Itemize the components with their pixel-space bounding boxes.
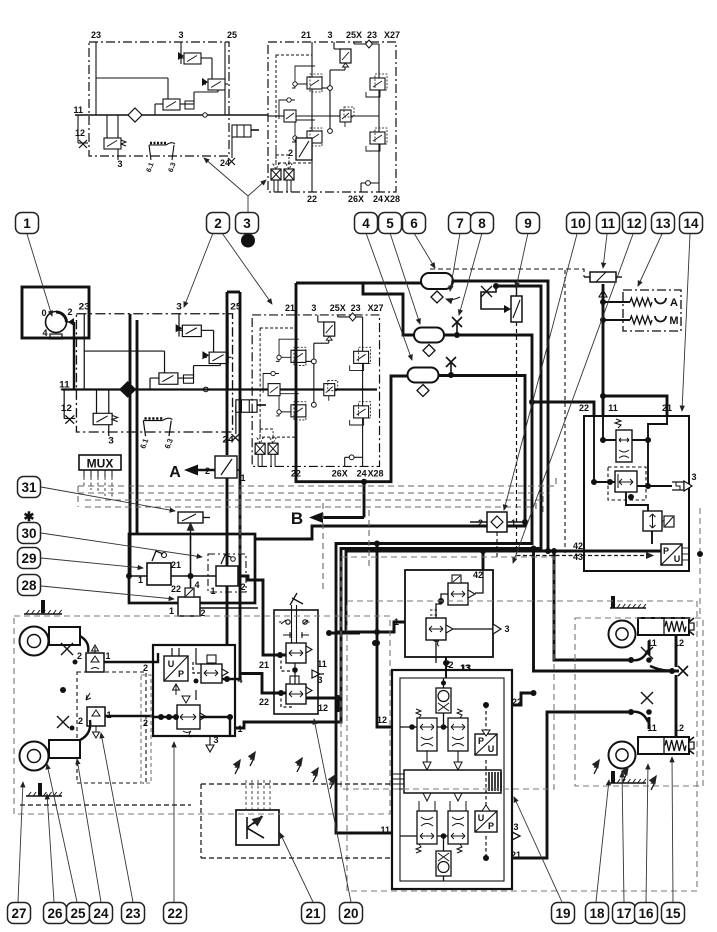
dashed pilot vertical [485, 705, 487, 858]
switch box [274, 610, 318, 714]
callout 11 [597, 213, 620, 234]
P/U converter of block 14 [661, 544, 682, 565]
svg-text:4: 4 [362, 216, 370, 231]
callout 14 [680, 213, 703, 234]
feed from bus to port 1 [336, 622, 405, 632]
callout 23 [122, 903, 145, 924]
MUX dashed harness down to K [84, 477, 112, 499]
svg-text:1: 1 [210, 586, 215, 596]
callout 8 [471, 213, 494, 234]
svg-text:P: P [178, 669, 184, 679]
callout 5 [379, 213, 402, 234]
svg-text:4: 4 [194, 580, 199, 590]
accumulator 6 [421, 273, 453, 303]
svg-text:3: 3 [691, 472, 696, 482]
svg-text:23: 23 [125, 906, 141, 921]
svg-text:1: 1 [511, 518, 516, 528]
svg-text:19: 19 [555, 906, 570, 921]
callout 21 [302, 903, 325, 924]
lower valve + pilot [643, 511, 674, 531]
svg-text:11: 11 [317, 659, 327, 669]
svg-text:28: 28 [21, 578, 37, 593]
item 28 solenoid valve [169, 580, 206, 618]
svg-text:U: U [168, 659, 175, 669]
svg-text:3: 3 [513, 822, 518, 832]
output arrow 11/3 [312, 670, 324, 678]
svg-text:29: 29 [21, 551, 36, 566]
bleed valve 8 [452, 317, 462, 334]
callout 1 [16, 213, 39, 234]
svg-text:42: 42 [473, 570, 483, 580]
svg-text:1: 1 [240, 473, 245, 483]
lower solenoid valves [416, 793, 437, 853]
svg-text:2: 2 [78, 716, 83, 726]
pump P [46, 312, 75, 340]
svg-text:9: 9 [524, 216, 532, 231]
callout 22 [164, 903, 187, 924]
item 30 valve in dashdot [208, 554, 246, 592]
EBS port lines [512, 693, 631, 858]
gray loom rectangles [14, 557, 703, 891]
internal wiring [436, 570, 493, 663]
check symbol + item 9 column [493, 283, 499, 289]
middle main line overlay [62, 388, 377, 390]
svg-text:2: 2 [214, 216, 222, 231]
block 20 thick frame [238, 576, 360, 712]
ports & junctions [158, 714, 164, 720]
callout 17 [613, 903, 636, 924]
item 29 hand brake valve [138, 551, 181, 594]
svg-text:42: 42 [573, 541, 583, 551]
callout 27 [8, 903, 31, 924]
42 top feed junction [480, 548, 486, 554]
svg-text:MUX: MUX [87, 457, 114, 471]
thick pneumatic bus right side [235, 281, 679, 833]
accumulator 5 [414, 328, 444, 357]
svg-text:2: 2 [67, 307, 72, 317]
callout 4 [355, 213, 378, 234]
svg-text:31: 31 [21, 480, 37, 495]
right pilot valve [201, 655, 228, 683]
callout 10 [567, 213, 590, 234]
upper solenoid valves [416, 709, 437, 751]
callout 7 [449, 213, 472, 234]
dashed interconnect box [77, 672, 146, 783]
accumulator 4 [408, 368, 439, 397]
svg-text:21: 21 [301, 30, 311, 40]
callout 19 [552, 903, 575, 924]
svg-text:30: 30 [21, 526, 36, 541]
svg-text:26X: 26X [348, 194, 364, 204]
front axle: top hatch rail [24, 610, 62, 614]
callout 2 [207, 213, 230, 234]
item 13 A/M heater coils box [603, 290, 681, 331]
svg-text:22: 22 [167, 906, 182, 921]
callout 15 [662, 903, 685, 924]
callout 6 [403, 213, 426, 234]
svg-text:11: 11 [601, 216, 616, 231]
svg-text:43: 43 [573, 552, 583, 562]
svg-text:0: 0 [41, 308, 46, 318]
svg-text:A: A [169, 464, 181, 481]
item 11 line relay [584, 272, 622, 282]
curved arrow (item 7 target) [446, 297, 460, 300]
svg-text:24: 24 [373, 194, 383, 204]
front chamber 2 [20, 742, 49, 771]
svg-text:1: 1 [105, 651, 110, 661]
hand lever [290, 593, 303, 605]
EBS block 19 outer [392, 670, 512, 889]
callout 16 [635, 903, 658, 924]
item10 lines [470, 521, 525, 523]
valve 2 of block 20 [286, 676, 312, 704]
internal wires [172, 648, 201, 700]
svg-text:20: 20 [343, 906, 358, 921]
svg-text:6: 6 [410, 216, 418, 231]
svg-text:2: 2 [205, 466, 210, 476]
svg-text:12: 12 [674, 723, 684, 733]
svg-text:22: 22 [171, 584, 181, 594]
svg-text:B: B [291, 509, 303, 528]
svg-text:21: 21 [259, 660, 269, 670]
svg-text:P: P [663, 546, 669, 556]
dashed drop right edge [699, 508, 701, 618]
svg-text:2: 2 [143, 718, 148, 728]
svg-text:12: 12 [75, 128, 85, 138]
svg-text:4: 4 [42, 328, 47, 338]
block 14 body [584, 416, 689, 571]
svg-text:11: 11 [647, 723, 657, 733]
svg-text:3: 3 [178, 30, 183, 40]
svg-text:8: 8 [478, 216, 486, 231]
filter diamond (solid) on middle main line [119, 381, 136, 398]
svg-text:14: 14 [683, 216, 699, 231]
K box [236, 810, 279, 845]
svg-text:2: 2 [77, 651, 82, 661]
slack curves upper [631, 650, 648, 660]
svg-text:12: 12 [318, 703, 328, 713]
svg-text:21: 21 [305, 906, 321, 921]
inner supply routing [594, 416, 672, 544]
governor valve in dashed box [608, 467, 646, 500]
svg-text:22: 22 [579, 403, 589, 413]
svg-text:5: 5 [386, 216, 394, 231]
svg-text:21: 21 [662, 403, 672, 413]
svg-text:11: 11 [380, 825, 390, 835]
slack adjuster curve 2 [80, 720, 90, 740]
svg-text:1: 1 [169, 606, 174, 616]
thick feed pair down to handbrake block [130, 314, 137, 576]
svg-text:24: 24 [220, 158, 230, 168]
svg-text:25: 25 [70, 906, 86, 921]
svg-text:3: 3 [504, 624, 509, 634]
svg-text:23: 23 [91, 30, 101, 40]
svg-text:18: 18 [589, 906, 605, 921]
callout 20 [340, 903, 363, 924]
svg-text:16: 16 [638, 906, 654, 921]
callout 9 [517, 213, 540, 234]
central manifold [404, 770, 501, 793]
svg-text:2: 2 [240, 582, 245, 592]
svg-text:27: 27 [11, 906, 26, 921]
callout 26 [44, 903, 67, 924]
P/U of EBS [475, 734, 497, 755]
rear upper hatch rail [610, 604, 646, 608]
item 9 overflow valve [511, 296, 522, 322]
svg-text:12: 12 [626, 216, 641, 231]
svg-text:25X: 25X [346, 30, 362, 40]
svg-text:✱: ✱ [24, 509, 35, 524]
svg-text:M: M [669, 315, 678, 327]
svg-text:X27: X27 [384, 30, 400, 40]
svg-text:7: 7 [456, 216, 464, 231]
item 31 pressure limiter [178, 512, 210, 523]
svg-text:3: 3 [327, 30, 332, 40]
rear lower hatch rail [610, 779, 646, 783]
dashed pilot lines [281, 655, 293, 707]
upper relay valve [448, 575, 475, 605]
block 42 trailer control [405, 570, 493, 657]
callout 31 [18, 477, 41, 498]
bleed valve on acc4 line [446, 357, 456, 374]
tall thick bar pair (supply down to front modulator) [227, 292, 240, 680]
callout 13 [652, 213, 675, 234]
svg-text:A: A [670, 297, 678, 309]
svg-text:13: 13 [655, 216, 671, 231]
svg-text:P: P [478, 736, 484, 746]
svg-text:3: 3 [243, 216, 251, 231]
svg-text:X28: X28 [384, 194, 400, 204]
U/P symbol [164, 656, 188, 695]
rear plumbing [649, 635, 676, 737]
middle-left circuit (copy of top-left) [59, 302, 276, 450]
svg-text:23: 23 [367, 30, 377, 40]
switch contacts [279, 605, 310, 643]
slack adjuster curve 1 [80, 636, 88, 652]
rear chamber upper [609, 621, 636, 648]
MUX box [79, 455, 121, 470]
top schematic pilot valve (2) [288, 138, 312, 160]
black dashed electrical lines [20, 784, 390, 858]
dashed wire left of item 11 [430, 269, 584, 277]
svg-text:11: 11 [73, 105, 83, 115]
rear chamber lower [609, 742, 636, 769]
svg-text:22: 22 [259, 697, 269, 707]
svg-text:11: 11 [608, 403, 618, 413]
pump enclosure box 1 [22, 287, 89, 338]
leader lines [18, 158, 690, 902]
front chamber 1 [20, 627, 49, 656]
item 10 coupling [478, 512, 516, 532]
slack curves lower [631, 712, 648, 722]
callout 12 [623, 213, 646, 234]
wire pump to line [73, 322, 75, 390]
lightning bolts [235, 760, 240, 774]
svg-text:21: 21 [171, 560, 181, 570]
U/P of EBS [475, 811, 497, 832]
svg-text:24: 24 [93, 906, 109, 921]
valve w/ spring (14 internal) [615, 419, 632, 462]
svg-text:1: 1 [138, 575, 143, 585]
callout 3 [236, 213, 259, 234]
svg-text:3: 3 [213, 735, 218, 745]
top check valve [436, 688, 451, 713]
vertical 11-feed down to block 14 [602, 284, 605, 416]
svg-text:2: 2 [288, 148, 293, 158]
svg-text:17: 17 [616, 906, 631, 921]
lower relay valve [177, 696, 206, 737]
lower hatch rail [26, 792, 62, 796]
callout 29 [18, 548, 41, 569]
svg-text:2: 2 [143, 663, 148, 673]
svg-text:13: 13 [460, 663, 470, 673]
svg-text:1: 1 [237, 724, 242, 734]
bottom check valve [436, 851, 451, 876]
svg-text:26: 26 [47, 906, 63, 921]
svg-text:3: 3 [317, 675, 322, 685]
outlet 3 fitting [672, 481, 692, 491]
gray CAN bus dashed rails [78, 478, 556, 590]
svg-text:10: 10 [570, 216, 585, 231]
svg-text:2: 2 [478, 518, 483, 528]
quick release valve b [78, 707, 112, 726]
callout 24 [90, 903, 113, 924]
block 22 modulator [153, 645, 235, 736]
svg-text:U: U [674, 554, 681, 564]
svg-text:22: 22 [307, 194, 317, 204]
dashed sense line from item9 down to 43 [516, 322, 518, 554]
top-left dash-dot circuit box [73, 30, 268, 173]
quick release valve a [77, 651, 111, 672]
callout 30 [18, 523, 41, 544]
svg-text:U: U [488, 744, 495, 754]
thick lines chambers to valves [104, 662, 153, 716]
top-right dash-dot circuit box [268, 30, 400, 204]
feed from 42 block down [445, 657, 447, 678]
svg-text:P: P [488, 821, 494, 831]
lower relay valve [426, 618, 453, 646]
callout 18 [586, 903, 609, 924]
svg-text:12: 12 [377, 715, 387, 725]
valve 1 of block 20 [286, 643, 312, 663]
callout 28 [18, 575, 41, 596]
handbrake thick frame [129, 534, 255, 603]
svg-text:15: 15 [665, 906, 681, 921]
svg-text:U: U [478, 813, 485, 823]
svg-text:3: 3 [117, 159, 122, 169]
callout 25 [67, 903, 90, 924]
svg-text:25: 25 [227, 30, 237, 40]
middle-right circuit (copy of top-right) [252, 303, 383, 479]
svg-text:1: 1 [23, 216, 31, 231]
